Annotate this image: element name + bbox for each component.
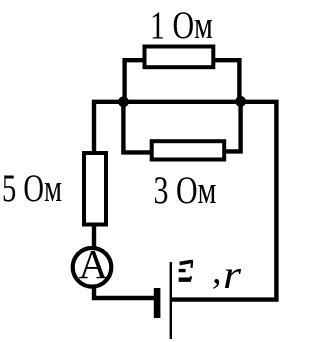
battery: long thin plate (positive) [170, 262, 172, 339]
svg-text:r: r [223, 252, 241, 297]
label: EMF script-E glyph [179, 260, 194, 282]
svg-text:,: , [212, 250, 222, 292]
wire: top branch left (junction up and to 1 Ом resistor) [125, 60, 144, 101]
node B (right junction dot) [235, 96, 246, 107]
wire: bottom branch left (junction down and to 3 Ом resistor) [123, 102, 150, 152]
svg-text:3 Ом: 3 Ом [154, 169, 217, 212]
svg-text:1 Ом: 1 Ом [150, 4, 213, 47]
resistor R3 5 Ом (left branch, vertical) [84, 153, 106, 225]
svg-text:А: А [79, 241, 109, 287]
battery: short thick plate (negative) [154, 288, 161, 318]
wire: left drop from main bus, top bus, right side wire, bottom-right wire to battery + plate [94, 102, 276, 300]
wire: bottom branch right (from 3 Ом resistor up to junction) [226, 102, 241, 151]
node A (left junction dot) [118, 96, 129, 107]
wire: top branch right (from 1 Ом resistor down to junction) [214, 60, 240, 101]
wire: ammeter bottom, corner, bottom-left wire to battery negative plate [94, 286, 154, 298]
ammeter A (circle) [73, 248, 112, 287]
svg-text:5 Ом: 5 Ом [2, 167, 62, 210]
wire: 5 Ом resistor bottom to ammeter top [92, 226, 96, 248]
resistor R2 3 Ом (lower parallel branch) [152, 141, 225, 159]
resistor R1 1 Ом (top branch) [145, 47, 214, 68]
